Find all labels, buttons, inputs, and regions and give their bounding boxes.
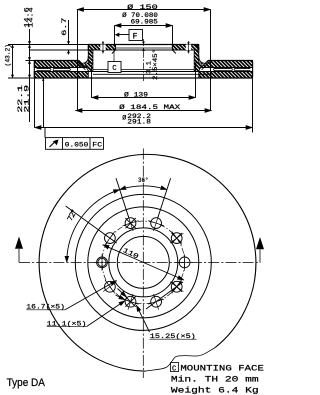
svg-text:Type DA: Type DA bbox=[7, 377, 46, 389]
bolt hole tick right in flange bbox=[188, 41, 190, 54]
angular dim texts bbox=[26, 176, 196, 341]
hat wall right hatch bbox=[194, 50, 199, 63]
datum C box bbox=[108, 62, 121, 73]
radial extension line 72 deg bbox=[158, 178, 171, 218]
leader 15.25 bbox=[136, 305, 149, 332]
hat step circle bbox=[109, 228, 178, 297]
bore edge right bbox=[172, 45, 176, 54]
datum F triangle bbox=[115, 33, 120, 37]
dim (43.2) line bbox=[12, 45, 14, 79]
friction ring right: upper plate hatch bbox=[201, 61, 253, 68]
view direction arrow left bbox=[18, 249, 20, 262]
disc bottom face bbox=[34, 77, 252, 79]
leader 11.1 bbox=[87, 301, 125, 327]
dim 3.1/2.5x45 arrows on centerline bbox=[142, 42, 145, 52]
dim Ø70.080 line bbox=[115, 25, 173, 27]
dim 110 diagonal line bbox=[103, 245, 184, 280]
svg-text:11.1(×5): 11.1(×5) bbox=[47, 321, 87, 329]
svg-text:F: F bbox=[133, 32, 138, 41]
lower plate top line (vane bottom) bbox=[34, 71, 252, 73]
vertical centerline bottom view bbox=[142, 149, 144, 379]
svg-text:Ø 150: Ø 150 bbox=[127, 3, 158, 12]
break squiggle bbox=[145, 348, 215, 372]
svg-text:36°: 36° bbox=[138, 176, 149, 185]
text 72 deg bbox=[67, 210, 76, 222]
svg-text:69.985: 69.985 bbox=[131, 19, 158, 26]
hat plate left end edge bbox=[87, 45, 89, 51]
svg-text:Ø 184.5 MAX: Ø 184.5 MAX bbox=[119, 103, 180, 112]
dim Ø150 ext lines bbox=[78, 10, 211, 111]
dim 14.6/14.4 line bbox=[29, 29, 31, 122]
view direction arrow right bbox=[259, 250, 261, 263]
hat top face bbox=[88, 44, 199, 46]
second leader arrow into star hole bbox=[116, 295, 126, 300]
datum C leader bbox=[113, 50, 115, 62]
hat plate right end edge bbox=[196, 45, 199, 51]
svg-text:C: C bbox=[172, 365, 176, 373]
left fillet hat wall to ring bbox=[83, 56, 89, 63]
ext line friction top left bbox=[26, 60, 35, 62]
svg-text:Min. TH 20 mm: Min. TH 20 mm bbox=[171, 375, 259, 385]
friction inner circle bbox=[75, 194, 211, 330]
bolt circle dash-dot bbox=[102, 221, 185, 304]
hat plate left hatch bbox=[88, 45, 115, 51]
radial extension line 144 deg bbox=[66, 206, 117, 243]
disc OD circle with break gap bbox=[39, 154, 256, 371]
leader 16.7 bbox=[65, 281, 116, 310]
friction ring right: lower plate hatch bbox=[199, 72, 253, 79]
datum F leader bbox=[119, 34, 130, 36]
dim Ø70.080 ext lines bbox=[115, 26, 173, 46]
friction top surface left bbox=[34, 60, 79, 62]
chamfer diagonal left channel inlet bbox=[77, 61, 87, 70]
svg-text:14.4: 14.4 bbox=[28, 7, 35, 28]
dim arc 36 deg bbox=[120, 186, 167, 190]
runout leader vertical bbox=[43, 78, 45, 127]
bolt hole 36 deg X bbox=[170, 231, 183, 244]
dim Ø184.5 line bbox=[76, 110, 212, 112]
bolt hole right white gap bbox=[186, 45, 191, 51]
svg-text:(43.2): (43.2) bbox=[5, 44, 12, 66]
right hat wall foot hatch bbox=[194, 63, 202, 72]
chamfer diagonal right channel inlet bbox=[200, 61, 210, 70]
bolt hole 180 deg double bbox=[94, 254, 111, 271]
top view dimension texts bbox=[5, 3, 181, 149]
ext line disc bottom left bbox=[8, 77, 34, 79]
vane top line right bbox=[201, 67, 253, 69]
svg-text:15.25(×5): 15.25(×5) bbox=[150, 333, 196, 341]
dim Ø150 line bbox=[77, 9, 211, 11]
bolt hole 108 deg X bbox=[123, 215, 139, 231]
dim Ø292.2 ext lines bbox=[35, 79, 253, 133]
bolt hole 0 deg bbox=[176, 254, 193, 271]
datum C box bottom bbox=[171, 363, 179, 372]
bore far-side line bbox=[115, 47, 172, 49]
friction ring left: upper plate hatch bbox=[34, 61, 86, 68]
svg-text:FC: FC bbox=[92, 141, 102, 149]
hat plate right hatch bbox=[172, 45, 198, 51]
hat wall left hatch bbox=[88, 50, 93, 63]
bolt hole 288 deg bbox=[148, 294, 164, 310]
dim Ø139 ext lines bbox=[92, 65, 196, 98]
bolt hole left white gap bbox=[100, 45, 105, 51]
svg-text:Weight 6.4 Kg: Weight 6.4 Kg bbox=[171, 385, 259, 395]
vane top line left bbox=[34, 67, 86, 69]
friction top surface right bbox=[208, 60, 253, 62]
hat interior far-side lines bbox=[93, 69, 212, 74]
bore edge left bbox=[112, 45, 116, 54]
svg-text:C: C bbox=[112, 65, 117, 73]
runout frame connector bbox=[44, 128, 46, 138]
runout tolerance frame bbox=[46, 138, 104, 150]
dim Ø139 line bbox=[92, 97, 196, 99]
ext line hat plate bottom left bbox=[30, 49, 88, 51]
horizontal centerline bottom view bbox=[19, 261, 261, 263]
disc OD right edge bbox=[251, 61, 253, 79]
center bore circle bbox=[117, 236, 169, 288]
left hat wall foot hatch bbox=[85, 63, 93, 72]
disc OD left edge bbox=[34, 61, 36, 79]
bolt hole 72 deg bbox=[148, 215, 164, 231]
hat outer circle bbox=[88, 207, 199, 318]
svg-text:291.8: 291.8 bbox=[127, 119, 151, 126]
dim arc 72 deg bbox=[67, 190, 120, 263]
stray line through 288/324 holes bbox=[146, 282, 183, 309]
datum F box bbox=[129, 30, 143, 41]
svg-text:6.7: 6.7 bbox=[61, 17, 68, 36]
right fillet hat wall to ring bbox=[199, 56, 205, 63]
radial extension line 108 deg bbox=[116, 178, 129, 218]
svg-text:2.5×45°: 2.5×45° bbox=[151, 49, 159, 80]
svg-text:Ø 139: Ø 139 bbox=[124, 90, 148, 99]
extra leader arrow into star hole bbox=[118, 289, 127, 298]
vane slot right C bbox=[214, 68, 233, 70]
friction ring left: lower plate hatch bbox=[34, 72, 88, 79]
bolt hole 252 deg X star bbox=[123, 294, 139, 310]
dim 6.7 line bbox=[68, 20, 70, 55]
bolt hole 324 deg X bbox=[170, 280, 183, 293]
runout symbol in frame bbox=[50, 140, 57, 147]
vane slot right D bbox=[234, 68, 250, 70]
mounting face note bbox=[171, 363, 265, 395]
svg-text:21.9: 21.9 bbox=[23, 84, 30, 112]
bolt hole 144 deg bbox=[103, 231, 116, 244]
ext line hat top left bbox=[8, 44, 88, 46]
hat plate bottom face bbox=[88, 49, 199, 51]
axis centerline of section bbox=[143, 39, 145, 81]
vane slot left B bbox=[53, 68, 70, 70]
svg-text:0.050: 0.050 bbox=[65, 141, 89, 149]
dim Ø292.2 line bbox=[35, 127, 253, 129]
vane slot left A bbox=[37, 68, 51, 70]
svg-text:MOUNTING FACE: MOUNTING FACE bbox=[180, 365, 264, 374]
svg-text:Ø: Ø bbox=[122, 114, 126, 123]
bolt hole tick left in flange bbox=[102, 41, 104, 54]
bolt hole 216 deg bbox=[103, 280, 116, 293]
svg-text:16.7(×5): 16.7(×5) bbox=[26, 304, 65, 312]
